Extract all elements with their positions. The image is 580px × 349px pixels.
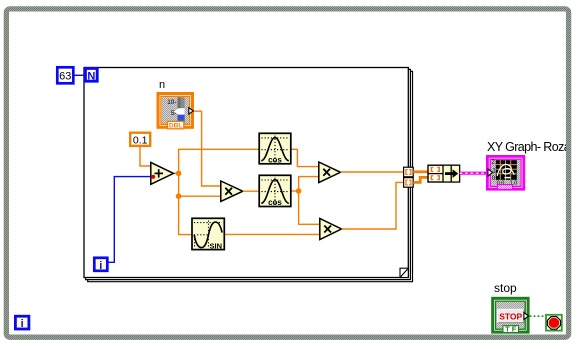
svg-text:i: i: [99, 260, 102, 272]
i iteration terminal (for loop): [94, 258, 107, 272]
multiply1 triangle: [221, 181, 243, 201]
for-loop corner fold: [400, 268, 408, 277]
wire junction2 to multiply1 lower input: [179, 195, 221, 197]
svg-text:STOP: STOP: [499, 312, 522, 322]
wire n to multiply1 upper input: [193, 111, 221, 186]
cos function block 2: [259, 175, 291, 207]
n slider control: [157, 79, 195, 130]
bundle node: [428, 165, 460, 182]
svg-text:XY Graph- Rozat: XY Graph- Rozat: [487, 140, 574, 154]
wire multiply1 to cos2: [243, 190, 259, 192]
wire i to add (blue): [109, 177, 151, 263]
XY Graph terminal: [486, 155, 525, 191]
wire add output to junction 1: [174, 172, 179, 174]
coercion dot (red): [151, 175, 155, 179]
numeric constant 63: [57, 67, 73, 83]
svg-text:5-: 5-: [171, 110, 177, 117]
sin function block: [192, 218, 224, 250]
add function triangle: [151, 163, 174, 185]
svg-text:cos: cos: [268, 155, 282, 164]
i iteration terminal (while loop): [15, 316, 29, 330]
wire multiply2 to tunnel1: [341, 171, 404, 173]
tunnel 1 (auto-index): [404, 167, 414, 177]
wire cos1 to multiply2 upper input: [291, 149, 319, 166]
svg-text:stop: stop: [494, 281, 517, 295]
cos function block 1: [259, 133, 291, 164]
svg-text:cos: cos: [268, 198, 282, 207]
wire junction1 to junction2: [178, 173, 180, 196]
wire sin to multiply3 lower input: [224, 233, 320, 235]
junction dot 3: [296, 188, 302, 194]
array wire tunnel2 to bundle: [413, 177, 428, 182]
svg-text:10-: 10-: [167, 99, 176, 106]
cluster wire bundle to XY graph (magenta): [460, 172, 489, 175]
svg-text:SIN: SIN: [210, 242, 223, 251]
for-loop frame: [84, 68, 413, 282]
wire 63 to N (blue): [75, 74, 85, 76]
while-loop conditional terminal (stop if true): [546, 315, 562, 331]
wire multiply3 to tunnel2: [342, 182, 404, 229]
boolean dotted wire stop to conditional terminal: [530, 315, 546, 317]
wire junction1 up to cos1 input: [179, 149, 259, 173]
svg-text:0.1: 0.1: [133, 135, 148, 147]
numeric constant 0.1: [130, 133, 150, 147]
XY Graph label: [487, 140, 574, 154]
junction dot 1: [176, 171, 182, 177]
svg-text:63: 63: [59, 71, 71, 83]
wire junction2 down to sin input: [179, 196, 192, 234]
tunnel 2 (auto-index): [404, 178, 414, 188]
junction dot 2: [176, 193, 182, 199]
multiply3 triangle: [320, 219, 342, 240]
svg-text:n: n: [159, 79, 165, 91]
svg-text:i: i: [21, 318, 24, 330]
svg-text:DBL: DBL: [169, 123, 183, 130]
array wire tunnel1 to bundle: [413, 170, 428, 173]
wire cos2 to junction3: [291, 190, 299, 192]
N count terminal: [85, 68, 97, 82]
wire junction3 down to multiply3 upper input: [299, 191, 320, 224]
multiply2 triangle: [319, 162, 341, 183]
wire 0.1 to add (orange): [140, 147, 150, 166]
stop boolean terminal: [491, 297, 529, 334]
svg-text:T F: T F: [505, 325, 517, 334]
wire junction3 up to multiply2 lower input: [299, 177, 319, 191]
svg-text:N: N: [87, 70, 95, 82]
